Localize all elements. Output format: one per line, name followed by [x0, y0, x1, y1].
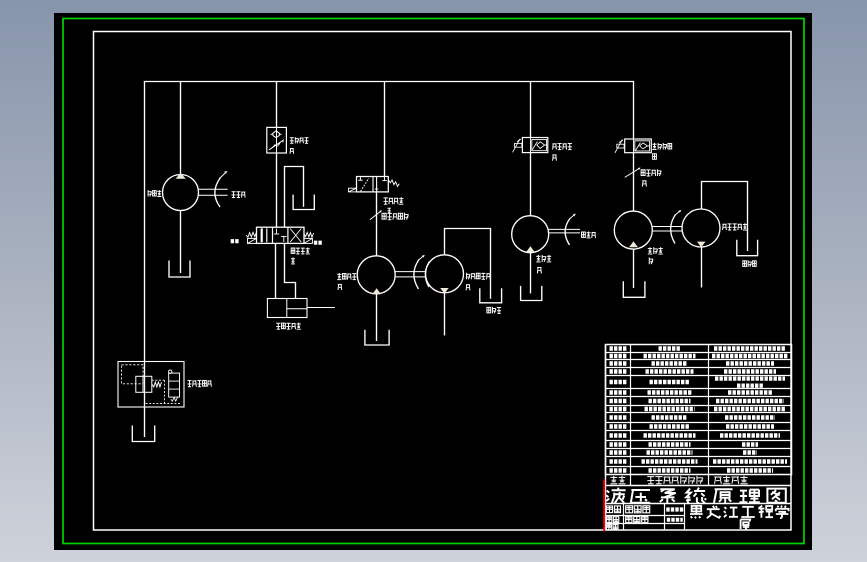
pump P3 circle — [512, 216, 549, 253]
RV2 poppet symbol — [640, 143, 648, 149]
wire: bus corner down to relief valve RV2 — [633, 82, 635, 140]
valve V1 centre cell blocked symbol — [276, 229, 278, 235]
wire: valve V1 port T return loop — [285, 167, 304, 227]
label: solenoid 1YA — [231, 239, 240, 243]
label: liangwei-santong valve V2 — [384, 197, 388, 199]
pump P1 drive shaft — [199, 188, 228, 190]
RVU pilot relief element — [169, 373, 180, 397]
label: pump P5 right — [722, 223, 726, 225]
wire: pump P5 top loop to tank T8 — [702, 182, 748, 252]
label: solenoid 2YA — [314, 241, 323, 245]
throttle symbol on P2 line — [370, 211, 381, 220]
pump P5 triangle — [697, 242, 706, 248]
parts table grid — [606, 345, 792, 475]
label: pump P4 below — [648, 248, 652, 250]
label sheji / name / date row 1 — [606, 506, 612, 513]
tank T3 — [132, 426, 154, 442]
valve V1 left spring — [246, 232, 256, 237]
tank T5 — [480, 288, 502, 303]
revision red line — [603, 480, 605, 532]
label: relief valve RV2 — [652, 143, 656, 145]
wire: pump P1 suction — [180, 211, 182, 274]
title block left border — [605, 345, 607, 531]
wire: FV1 to valve V1 port P — [276, 153, 278, 227]
motor M1 circle — [426, 255, 464, 293]
school name line 1 — [690, 487, 692, 489]
pump P3 rotation arc — [565, 219, 570, 246]
wire: valve V1 port B down jog — [285, 244, 296, 299]
RVU pilot dashed box — [122, 365, 144, 384]
white drawing frame — [94, 32, 792, 531]
shaft P4 - P5 — [652, 226, 682, 228]
valve V1 left cell flow bars — [261, 228, 263, 242]
label: xiehe yiliu valve RVU — [187, 380, 191, 382]
label: flow valve FV1 — [290, 137, 294, 139]
pump P4 triangle — [629, 241, 638, 247]
wire: pump P2 suction — [376, 294, 378, 341]
signature grid — [606, 503, 792, 505]
wire: RV2 down to pump P4 — [633, 153, 635, 212]
wire: RV1 to pump P3 — [530, 153, 532, 216]
RVU dashed pilot lines — [152, 379, 165, 381]
label: block B1 — [276, 322, 280, 324]
valve V1 right spring — [304, 232, 314, 237]
unloading relief valve RVU enclosure — [118, 362, 184, 408]
wire: motor M1 top loop to tank T5 — [445, 229, 491, 299]
valve V2 solenoid box — [349, 188, 357, 192]
RVU spool boxes — [136, 376, 152, 392]
valve V2 right cell T port — [384, 177, 386, 181]
flow control valve FV1 body — [267, 127, 287, 153]
pump P4 circle — [614, 211, 652, 249]
label: sanwei-sitong valve V1 — [291, 248, 295, 253]
label: pump P2 left — [337, 273, 341, 275]
pump P1 outlet triangle — [176, 173, 186, 179]
label: throttle by V2 — [382, 213, 386, 219]
shaft pump P2 - motor M1 — [395, 271, 425, 273]
throttle symbol on P4 line — [625, 168, 640, 177]
wire: pump P3 suction — [530, 253, 532, 294]
tank T2 (valve V1 tank return) — [293, 195, 314, 210]
relief valve RV2 body — [625, 139, 652, 153]
wire: motor M1 drain line — [444, 293, 446, 336]
main title: hydraulic system schematic — [606, 491, 609, 501]
label: diandongji (P3) — [582, 232, 586, 237]
green sheet border frame — [63, 19, 804, 544]
pump P3 triangle — [526, 246, 535, 252]
wire: riser to valve V2 — [384, 82, 386, 177]
directional valve V2 (2/3) body — [357, 177, 389, 192]
wire: pump P5 drain — [701, 247, 703, 287]
pump P2 inlet triangle — [372, 288, 381, 294]
label: motor M1 right — [466, 273, 468, 280]
valve V1 left solenoid box — [248, 238, 257, 243]
pump P1 (variable pump) circle — [163, 175, 199, 211]
rotation arc between P4 and P5 — [671, 215, 676, 244]
rotation arcs between P2 and M1 — [414, 260, 419, 290]
pump P1 rotation arc arrow — [215, 178, 221, 208]
RV1 pilot box and arrow — [515, 143, 522, 147]
tank T1 under pump P1 — [169, 261, 190, 278]
parts table row texts — [610, 346, 627, 350]
motor M1 triangle — [440, 288, 449, 294]
label: relief valve RV1 — [552, 143, 556, 145]
wire: pump P4 suction — [633, 249, 635, 288]
valve V2 spring — [389, 180, 400, 186]
pump P2 circle — [357, 256, 395, 294]
RVU spring — [152, 382, 161, 387]
tank T4 under pump P2 — [365, 330, 389, 345]
wire: riser to flow valve FV1 — [276, 82, 278, 128]
wire: pump P1 riser — [180, 82, 182, 176]
pump P5 circle — [682, 209, 720, 247]
valve V2 left cell port and dashed diagonal — [359, 177, 361, 181]
wire: valve V2 to pump P2 — [376, 192, 378, 256]
label: youxiang under T8 — [743, 261, 747, 267]
flow control valve FV1 internal symbol — [276, 127, 278, 153]
label: youxiang under T5 — [487, 307, 491, 313]
wire: left branch drop to unloading relief block — [144, 82, 146, 362]
label: pump P3 below — [536, 255, 540, 257]
wire: main pressure bus — [144, 81, 634, 83]
wire: block B1 stub to right — [307, 307, 335, 309]
label shenhe / name / date row 2 — [606, 517, 611, 523]
header row: mingcheng / manufacturer / working state — [606, 485, 792, 487]
wire: through line in RVU — [144, 362, 146, 408]
valve V1 right cell crossed arrows — [290, 229, 301, 242]
directional valve V1 (4/3) body — [257, 227, 305, 243]
wire: riser to relief valve RV1 — [530, 82, 532, 138]
RV1 poppet symbol — [537, 142, 545, 149]
valve V1 right solenoid box — [304, 238, 312, 243]
RV2 pilot box and arrow — [617, 144, 624, 148]
tank T6 — [521, 286, 542, 301]
pump P3 shaft — [549, 228, 580, 230]
relief valve RV1 body — [522, 138, 547, 153]
wire: valve V1 port A down — [275, 244, 277, 299]
tank T8 — [737, 240, 758, 256]
school name line 2: yuan — [741, 519, 751, 529]
label: diandongji (pump P1 right) — [232, 191, 236, 193]
label: throttle by RV2 — [641, 170, 645, 176]
tank T7 — [623, 281, 645, 297]
label pizhun row 3 — [606, 525, 611, 530]
wire: RVU to tank T3 — [144, 407, 146, 437]
label: bianliangbeng (pump P1 left) — [147, 190, 149, 196]
manifold block B1 — [267, 299, 307, 318]
